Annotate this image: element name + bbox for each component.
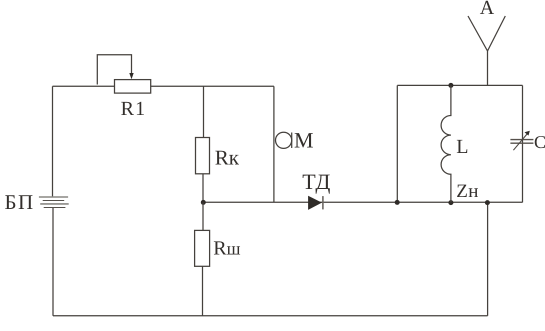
resistor Rsh bbox=[195, 202, 210, 315]
wire right drop bbox=[487, 202, 489, 315]
svg-text:C: C bbox=[534, 132, 545, 152]
wire M-branch vertical bbox=[273, 86, 275, 202]
node dot L bottom bbox=[448, 200, 453, 205]
wire left rail upper bbox=[52, 86, 54, 196]
node dot tank-left bbox=[395, 200, 400, 205]
wire top-left main horizontal bbox=[53, 85, 274, 87]
battery BP bbox=[39, 197, 69, 208]
svg-text:ТД: ТД bbox=[302, 169, 331, 194]
resistor Rk bbox=[196, 86, 210, 202]
capacitor C variable bbox=[510, 131, 533, 151]
svg-text:М: М bbox=[294, 128, 314, 153]
inductor L bbox=[441, 85, 451, 202]
svg-text:R1: R1 bbox=[121, 98, 147, 120]
wire left rail lower bbox=[52, 208, 54, 316]
diode TD bbox=[308, 196, 323, 210]
svg-text:L: L bbox=[456, 136, 468, 158]
wire tank top bbox=[397, 84, 522, 86]
microphone M symbol bbox=[276, 132, 292, 148]
node junction dot left bbox=[201, 200, 206, 205]
svg-text:БП: БП bbox=[5, 190, 35, 214]
svg-text:Zн: Zн bbox=[456, 181, 478, 202]
svg-text:Rк: Rк bbox=[215, 146, 240, 170]
wire capacitor branch vertical bbox=[522, 85, 524, 202]
potentiometer R1 bbox=[97, 55, 150, 93]
antenna bbox=[468, 16, 505, 85]
svg-text:А: А bbox=[480, 0, 495, 19]
wire bottom rail bbox=[53, 315, 488, 317]
node dot L top bbox=[448, 83, 453, 88]
wire mid horizontal bbox=[204, 201, 523, 203]
svg-text:Rш: Rш bbox=[213, 238, 240, 260]
node dot right drop bbox=[485, 200, 490, 205]
wire tank left vertical bbox=[396, 85, 398, 202]
